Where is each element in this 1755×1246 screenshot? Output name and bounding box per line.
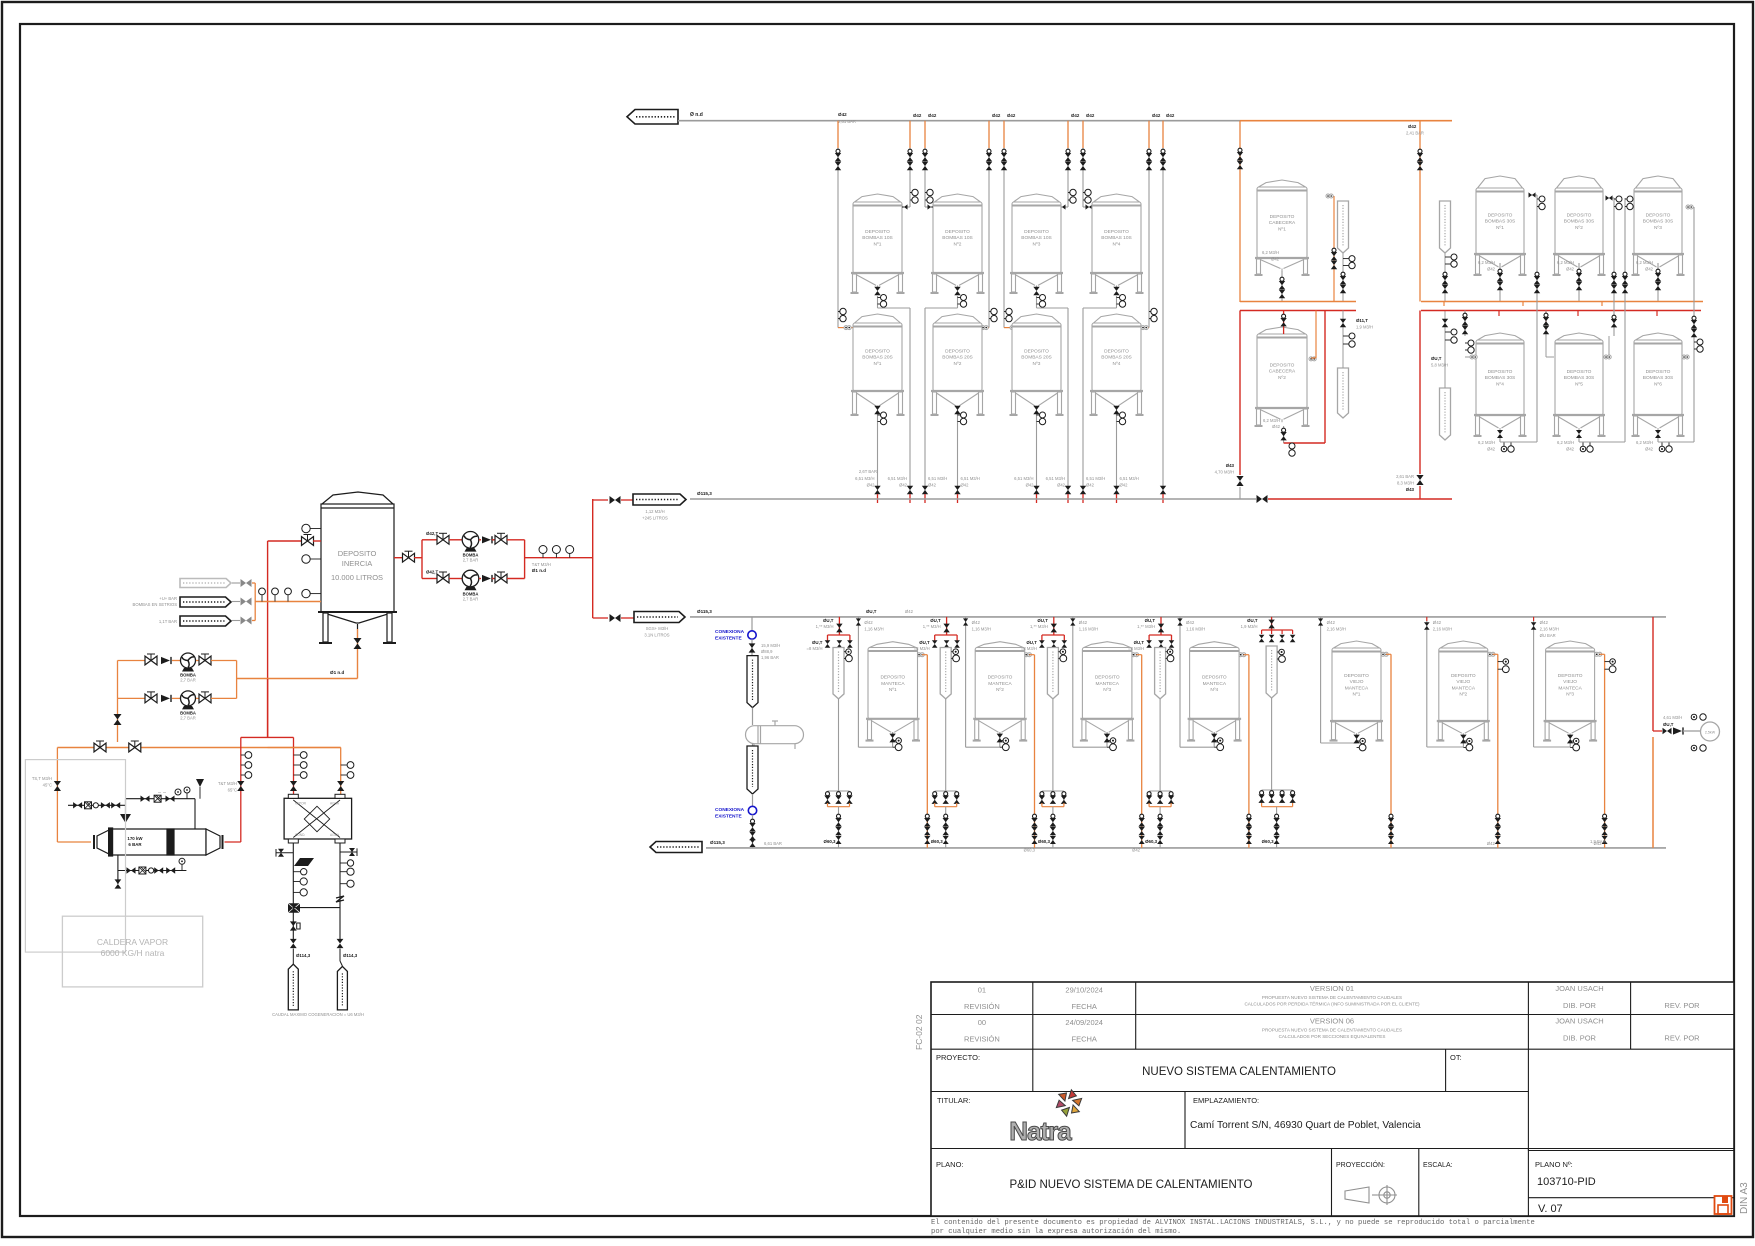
- svg-text:DEPOSITO: DEPOSITO: [1202, 675, 1227, 681]
- 30S riser3: [1579, 196, 1633, 442]
- svg-text:+245 LITROS: +245 LITROS: [642, 516, 668, 521]
- svg-text:Ø42: Ø42: [928, 483, 937, 488]
- svg-text:MANTECA: MANTECA: [1452, 685, 1476, 691]
- svg-text:=8 M3/H: =8 M3/H: [1021, 646, 1037, 651]
- svg-text:MANTECA: MANTECA: [1203, 681, 1227, 687]
- svg-text:Nº2: Nº2: [1459, 692, 1467, 698]
- banner cogeneracion L: [288, 949, 298, 1010]
- svg-text:Ø42: Ø42: [899, 483, 908, 488]
- svg-text:Natra: Natra: [1009, 1116, 1072, 1146]
- svg-text:4,70 M3/H: 4,70 M3/H: [1215, 470, 1234, 475]
- svg-text:Ø42: Ø42: [1071, 113, 1080, 118]
- svg-text:6,51 M3/H: 6,51 M3/H: [888, 476, 907, 481]
- plateHX left drain: [276, 843, 314, 958]
- svg-text:24/09/2024: 24/09/2024: [1065, 1018, 1103, 1027]
- svg-text:Ø43: Ø43: [1406, 487, 1415, 492]
- svg-text:FECHA: FECHA: [1071, 1002, 1096, 1011]
- svg-text:VIEJO: VIEJO: [1563, 679, 1577, 685]
- svg-text:Nº2: Nº2: [954, 361, 962, 367]
- svg-text:=8 M3/H: =8 M3/H: [1128, 646, 1144, 651]
- label 2,6T BAR: [859, 469, 877, 474]
- svg-text:T&T M3/H: T&T M3/H: [532, 562, 551, 567]
- pipe drop x989: [981, 113, 1001, 330]
- svg-text:PROPUESTA NUEVO SISTEMA DE CAL: PROPUESTA NUEVO SISTEMA DE CALENTAMIENTO…: [1262, 995, 1402, 1000]
- svg-text:BOMBAS 30S: BOMBAS 30S: [1485, 219, 1515, 225]
- conexiona existente 1: [715, 617, 780, 660]
- manteca tank3 outlet: [1104, 732, 1117, 751]
- pipe drop x1004: [1001, 113, 1019, 330]
- svg-text:T&T M3/H: T&T M3/H: [218, 781, 237, 786]
- cabecera1 right pipe: [1326, 194, 1337, 302]
- svg-text:SGS+ M3/H: SGS+ M3/H: [646, 626, 668, 631]
- svg-text:Nº3: Nº3: [1103, 687, 1111, 693]
- svg-text:BOMBAS 10S: BOMBAS 10S: [942, 235, 972, 241]
- svg-text:REVISIÓN: REVISIÓN: [964, 1035, 1000, 1044]
- title block: [931, 982, 1734, 1216]
- svg-text:Ø42: Ø42: [992, 113, 1001, 118]
- cabecera1 outlet: [1262, 250, 1285, 302]
- svg-text:ØU,T: ØU,T: [1026, 640, 1037, 645]
- svg-text:1,9 M3/H: 1,9 M3/H: [1356, 325, 1373, 330]
- svg-text:VIEJO: VIEJO: [1456, 679, 1470, 685]
- svg-text:Ø42: Ø42: [1152, 113, 1161, 118]
- tank DEPOSITO BOMBAS 20S Nº4: [1090, 314, 1144, 415]
- svg-text:2,7 BAR: 2,7 BAR: [180, 715, 196, 720]
- svg-text:Ø60,3: Ø60,3: [824, 839, 837, 844]
- lower pump manifold L: [117, 661, 119, 699]
- svg-text:Ø42: Ø42: [1645, 267, 1654, 272]
- svg-text:1,** M3/H: 1,** M3/H: [923, 624, 941, 629]
- svg-text:4,61 M3/H: 4,61 M3/H: [1663, 715, 1682, 720]
- orange header low: [57, 741, 340, 752]
- tank DEPOSITO MANTECA Nº3: [1080, 642, 1135, 741]
- svg-text:VERSION 01: VERSION 01: [1310, 984, 1354, 993]
- svg-text:DEPOSITO: DEPOSITO: [1488, 369, 1513, 375]
- svg-text:BOMBAS 30S: BOMBAS 30S: [1643, 219, 1673, 225]
- svg-text:1,16 M3/H: 1,16 M3/H: [972, 627, 991, 632]
- svg-text:Ø42: Ø42: [905, 609, 914, 614]
- svg-text:00: 00: [978, 1018, 986, 1027]
- svg-text:VAPOR: VAPOR: [295, 802, 307, 806]
- svg-text:ØU,T: ØU,T: [812, 640, 823, 645]
- svg-text:NUEVO SISTEMA CALENTAMIENTO: NUEVO SISTEMA CALENTAMIENTO: [1142, 1066, 1336, 1078]
- red vertical left: [267, 541, 269, 737]
- svg-text:COND.: COND.: [295, 833, 305, 837]
- svg-text:6,51 M3/H: 6,51 M3/H: [928, 476, 947, 481]
- svg-text:Ø60,3: Ø60,3: [931, 839, 944, 844]
- svg-text:6,51 M3/H: 6,51 M3/H: [1046, 476, 1065, 481]
- svg-text:DEPOSITO: DEPOSITO: [1646, 369, 1671, 375]
- svg-text:2,5kW: 2,5kW: [1705, 731, 1716, 735]
- svg-text:ØU,T: ØU,T: [1247, 618, 1258, 623]
- svg-text:Nº1: Nº1: [1496, 225, 1504, 231]
- disclaimer: [931, 1219, 1535, 1236]
- svg-text:8,3 M3/H: 8,3 M3/H: [1397, 481, 1414, 486]
- HX steam top line: [126, 779, 205, 829]
- svg-text:Nº1: Nº1: [1353, 692, 1361, 698]
- svg-text:MANTECA: MANTECA: [1558, 685, 1582, 691]
- 30S riser4: [1658, 205, 1703, 442]
- manteca right pump: [1653, 617, 1720, 848]
- conexiona existente 2: [715, 794, 782, 848]
- svg-text:Ø42: Ø42: [1408, 124, 1417, 129]
- svg-text:FECHA: FECHA: [1071, 1035, 1096, 1044]
- inercia bottom valve: [354, 629, 362, 679]
- svg-text:Ø115,3: Ø115,3: [697, 609, 712, 614]
- svg-text:Ø42: Ø42: [1272, 424, 1281, 429]
- svg-text:BOMBAS 20S: BOMBAS 20S: [1101, 355, 1131, 361]
- svg-text:Ø60,3: Ø60,3: [1024, 848, 1036, 853]
- top header gray: [678, 120, 1240, 122]
- svg-text:Ø42: Ø42: [913, 113, 922, 118]
- viejo manteca tank1 outlet: [1353, 735, 1366, 751]
- svg-text:2,7 BAR: 2,7 BAR: [463, 558, 479, 563]
- inercia inlet valve: [268, 535, 321, 546]
- lower pump branch2: [118, 691, 237, 721]
- tank DEPOSITO BOMBAS 10S Nº2: [931, 194, 985, 293]
- mid header gray: [690, 491, 1256, 499]
- svg-text:Nº3: Nº3: [1654, 225, 1662, 231]
- tank DEPOSITO BOMBAS 10S Nº1: [851, 194, 905, 293]
- svg-text:por cualquier medio sin la exp: por cualquier medio sin la expresa autor…: [931, 1228, 1181, 1236]
- svg-text:DEPOSITO: DEPOSITO: [988, 675, 1013, 681]
- svg-text:DEPOSITO: DEPOSITO: [1451, 673, 1476, 679]
- lower pump manifold R: [237, 661, 358, 699]
- svg-text:JOAN USACH: JOAN USACH: [1555, 1017, 1603, 1026]
- svg-text:5,8 M3/H: 5,8 M3/H: [1431, 363, 1448, 368]
- red vertical mid-junction: [267, 736, 269, 738]
- tank DEPOSITO MANTECA Nº2: [973, 642, 1027, 741]
- svg-text:Ø42: Ø42: [1057, 483, 1066, 488]
- svg-text:BOMBAS 30S: BOMBAS 30S: [1485, 375, 1515, 381]
- lower pump branch1: [118, 653, 237, 683]
- svg-text:TS,T M3/H: TS,T M3/H: [32, 776, 52, 781]
- red H manifold: [241, 679, 294, 737]
- svg-text:01: 01: [978, 986, 986, 995]
- svg-text:DEPOSITO: DEPOSITO: [1646, 213, 1671, 219]
- svg-text:BOMBAS 20S: BOMBAS 20S: [862, 355, 892, 361]
- svg-text:Ø42: Ø42: [1086, 483, 1095, 488]
- svg-text:Ø60,3: Ø60,3: [1038, 839, 1051, 844]
- cabecera2 top feed: [1280, 311, 1316, 361]
- banner DEVOLUCION mid: [593, 494, 686, 521]
- svg-text:AGUA: AGUA: [330, 802, 340, 806]
- svg-text:Ø115,3: Ø115,3: [710, 840, 725, 845]
- svg-text:Ø88,9: Ø88,9: [761, 649, 773, 654]
- svg-text:Nº2: Nº2: [954, 241, 962, 247]
- svg-text:DEPOSITO: DEPOSITO: [1024, 229, 1049, 235]
- svg-text:Ø60,3: Ø60,3: [1262, 839, 1275, 844]
- svg-text:Ø42: Ø42: [838, 112, 847, 117]
- svg-text:CALCULADOS POR PERDIDA TÉRMICA: CALCULADOS POR PERDIDA TÉRMICA (INFO SUM…: [1244, 1001, 1420, 1007]
- banners manifold left: [133, 579, 256, 627]
- heat exchanger plates: [284, 794, 352, 843]
- svg-text:MANTECA: MANTECA: [1345, 685, 1369, 691]
- svg-text:2,7 BAR: 2,7 BAR: [463, 596, 479, 601]
- cabecera2 outlet loop: [1263, 311, 1325, 457]
- manteca tank1 outlet: [889, 732, 902, 751]
- labels col2: [928, 476, 947, 488]
- svg-text:6,51 M3/H: 6,51 M3/H: [1120, 476, 1139, 481]
- row1 tank4 bottom outlet: [1083, 287, 1126, 308]
- row1 tank1 bottom outlet: [874, 287, 910, 308]
- svg-text:Ø42: Ø42: [928, 113, 937, 118]
- 30S riser1: [1500, 192, 1545, 442]
- svg-text:2,7 BAR: 2,7 BAR: [180, 678, 196, 683]
- svg-text:V. 07: V. 07: [1538, 1203, 1563, 1215]
- svg-text:2,16 M3/H: 2,16 M3/H: [1433, 627, 1452, 632]
- viejo manteca module pipes 1: [1241, 617, 1395, 848]
- svg-text:CABECERA: CABECERA: [1269, 220, 1296, 226]
- svg-text:ØU,T: ØU,T: [1431, 356, 1442, 361]
- svg-text:BOMBAS 10S: BOMBAS 10S: [1101, 235, 1131, 241]
- cabecera orange drop L: [1237, 121, 1243, 302]
- svg-text:1,9 M3/H: 1,9 M3/H: [1241, 624, 1258, 629]
- svg-text:Ø1 n.d: Ø1 n.d: [532, 568, 546, 573]
- svg-text:15,9 M3/H: 15,9 M3/H: [761, 643, 780, 648]
- svg-text:29/10/2024: 29/10/2024: [1065, 986, 1103, 995]
- svg-text:ØU,T: ØU,T: [1145, 618, 1156, 623]
- svg-text:10.000 LITROS: 10.000 LITROS: [331, 573, 383, 582]
- svg-text:PROYECTO:: PROYECTO:: [936, 1053, 980, 1062]
- manteca module pipes 3: [1021, 617, 1145, 848]
- svg-text:Camí Torrent S/N, 46930 Quart: Camí Torrent S/N, 46930 Quart de Poblet,…: [1190, 1120, 1421, 1131]
- svg-text:CABECERA: CABECERA: [1269, 369, 1296, 375]
- svg-text:DEPOSITO: DEPOSITO: [1095, 675, 1120, 681]
- svg-text:6,2 M3/H: 6,2 M3/H: [1262, 250, 1279, 255]
- mid header valve: [1257, 495, 1268, 503]
- svg-text:6,51 M3/H: 6,51 M3/H: [1014, 476, 1033, 481]
- tank DEPOSITO BOMBAS 20S Nº1: [851, 314, 905, 415]
- svg-text:2,16 M3/H: 2,16 M3/H: [1540, 627, 1559, 632]
- cabecera orange drop R: [1406, 121, 1424, 302]
- tank DEPOSITO BOMBAS 30S Nº2: [1553, 176, 1606, 275]
- row1 tank2 bottom outlet: [925, 287, 967, 308]
- svg-text:... ...: ... ...: [158, 789, 167, 794]
- tank DEPOSITO VIEJO MANTECA Nº1: [1330, 641, 1384, 741]
- svg-text:1,16 M3/H: 1,16 M3/H: [1186, 627, 1205, 632]
- svg-text:DEPOSITO: DEPOSITO: [1104, 229, 1129, 235]
- tank DEPOSITO CABECERA Nº2: [1255, 327, 1310, 426]
- svg-text:DEPOSITO: DEPOSITO: [338, 549, 377, 558]
- tank DEPOSITO BOMBAS 10S Nº4: [1090, 194, 1144, 293]
- tank DEPOSITO MANTECA Nº1: [866, 642, 921, 741]
- inercia left instruments: [302, 524, 321, 598]
- svg-text:1,16 M3/H: 1,16 M3/H: [1079, 627, 1098, 632]
- banner tag grp2b: [1431, 311, 1457, 441]
- svg-text:6,2 M3/H: 6,2 M3/H: [1263, 418, 1280, 423]
- svg-text:ØU,T: ØU,T: [930, 618, 941, 623]
- svg-text:1,9 BAR: 1,9 BAR: [1590, 839, 1606, 844]
- red vertical group2: [1396, 311, 1424, 500]
- svg-text:DEPOSITO: DEPOSITO: [1558, 673, 1583, 679]
- manteca module pipes 1: [807, 617, 931, 848]
- svg-text:PLANO Nº:: PLANO Nº:: [1535, 1160, 1573, 1169]
- pipe drop x925: [922, 113, 937, 503]
- svg-text:ØU,T: ØU,T: [1134, 640, 1145, 645]
- banner salida mid: [593, 612, 685, 638]
- orange into tank: [255, 588, 321, 602]
- svg-text:DEPOSITO: DEPOSITO: [865, 229, 890, 235]
- svg-text:Ø42: Ø42: [961, 483, 970, 488]
- svg-text:Nº4: Nº4: [1496, 381, 1504, 387]
- svg-text:Ø42: Ø42: [1166, 113, 1175, 118]
- svg-text:Ø42: Ø42: [1271, 257, 1280, 262]
- svg-text:Nº5: Nº5: [1575, 381, 1583, 387]
- svg-text:+U+ BAR: +U+ BAR: [159, 596, 177, 601]
- svg-text:Ø42: Ø42: [1433, 620, 1442, 625]
- banner tag cab1: [1338, 201, 1356, 301]
- 30S row2 feeds: [1462, 311, 1689, 360]
- FC-02 02 vertical: [914, 1014, 924, 1050]
- tank DEPOSITO BOMBAS 10S Nº3: [1010, 194, 1064, 293]
- svg-text:1,12 M3/H: 1,12 M3/H: [645, 509, 664, 514]
- svg-text:6,51 M3/H: 6,51 M3/H: [855, 476, 874, 481]
- orange left drop: [32, 748, 91, 843]
- banner cogeneracion R: [337, 949, 347, 1010]
- svg-text:DEPOSITO: DEPOSITO: [1488, 213, 1513, 219]
- red vertical cab L: [1215, 311, 1244, 500]
- svg-text:Nº4: Nº4: [1113, 361, 1121, 367]
- svg-text:DEPOSITO: DEPOSITO: [1270, 363, 1295, 369]
- svg-text:6,61 BAR: 6,61 BAR: [764, 841, 782, 846]
- svg-text:Ø114,3: Ø114,3: [343, 953, 358, 958]
- svg-text:Ø114,3: Ø114,3: [296, 953, 311, 958]
- svg-text:DIN A3: DIN A3: [1739, 1182, 1750, 1214]
- svg-text:6000 KG/H natra: 6000 KG/H natra: [101, 948, 165, 958]
- svg-text:1,** M3/H: 1,** M3/H: [1030, 624, 1048, 629]
- svg-text:Ø42: Ø42: [1007, 113, 1016, 118]
- svg-text:DEPOSITO: DEPOSITO: [1024, 349, 1049, 355]
- tank DEPOSITO CABECERA Nº1: [1255, 180, 1310, 275]
- svg-text:45°C: 45°C: [43, 783, 52, 788]
- svg-text:6,2 M3/H: 6,2 M3/H: [1557, 260, 1574, 265]
- svg-text:P&ID NUEVO SISTEMA DE CALENTAM: P&ID NUEVO SISTEMA DE CALENTAMIENTO: [1009, 1179, 1252, 1191]
- pipe drop x1068: [1059, 113, 1080, 503]
- svg-text:DEPOSITO: DEPOSITO: [1104, 349, 1129, 355]
- banner tag grp2a: [1440, 201, 1458, 301]
- viejo manteca tank3 outlet: [1567, 735, 1580, 751]
- svg-text:JOAN USACH: JOAN USACH: [1555, 984, 1603, 993]
- pump upper branch: [422, 531, 525, 563]
- svg-text:Nº3: Nº3: [1566, 692, 1574, 698]
- svg-text:Ø42: Ø42: [867, 483, 876, 488]
- svg-text:Ø42: Ø42: [1566, 447, 1575, 452]
- svg-text:Ø42: Ø42: [1026, 483, 1035, 488]
- svg-text:6,2 M3/H: 6,2 M3/H: [1636, 260, 1653, 265]
- svg-text:BOMBAS 20S: BOMBAS 20S: [1021, 355, 1051, 361]
- svg-text:2,16 M3/H: 2,16 M3/H: [1327, 627, 1346, 632]
- svg-text:DEPOSITO: DEPOSITO: [1567, 213, 1592, 219]
- svg-text:Ø42: Ø42: [1120, 483, 1129, 488]
- svg-text:Nº2: Nº2: [1278, 375, 1286, 381]
- 30S feed 1546: [1543, 311, 1554, 358]
- svg-text:DEPOSITO: DEPOSITO: [865, 349, 890, 355]
- tank DEPOSITO MANTECA Nº4: [1187, 642, 1242, 741]
- svg-text:BOMBAS 10S: BOMBAS 10S: [1021, 235, 1051, 241]
- svg-text:PROPUESTA NUEVO SISTEMA DE CAL: PROPUESTA NUEVO SISTEMA DE CALENTAMIENTO…: [1262, 1028, 1402, 1033]
- plateHX right drain: [294, 843, 358, 958]
- row1 tank3 bottom outlet: [1033, 287, 1068, 308]
- label top header: [838, 112, 856, 124]
- svg-text:DIB. POR: DIB. POR: [1563, 1034, 1597, 1043]
- tank DEPOSITO BOMBAS 30S Nº5: [1553, 333, 1606, 436]
- red drop to plateHX: [290, 737, 307, 798]
- mid header red: [1268, 498, 1452, 500]
- svg-text:65°C: 65°C: [228, 788, 237, 793]
- svg-text:Ø42,T: Ø42,T: [426, 570, 439, 575]
- svg-text:6,51 M3/H: 6,51 M3/H: [961, 476, 980, 481]
- svg-text:Ø1 n.d: Ø1 n.d: [330, 670, 344, 675]
- svg-text:Ø42: Ø42: [1645, 447, 1654, 452]
- svg-text:PROYECCIÓN:: PROYECCIÓN:: [1336, 1160, 1385, 1169]
- svg-text:6,2 M3/H: 6,2 M3/H: [1636, 440, 1653, 445]
- svg-text:REV. POR: REV. POR: [1664, 1001, 1700, 1010]
- svg-text:6 BAR: 6 BAR: [128, 842, 142, 847]
- manteca module pipes 4: [1128, 617, 1252, 848]
- svg-text:Ø42: Ø42: [864, 620, 873, 625]
- svg-text:CALDERA VAPOR: CALDERA VAPOR: [97, 937, 168, 947]
- row2 tank2 bottom outlet: [954, 406, 980, 503]
- 30S red drops: [1444, 302, 1657, 317]
- 30S orange low header: [1421, 301, 1703, 303]
- svg-text:El contenido del presente docu: El contenido del presente documento es p…: [931, 1219, 1535, 1227]
- svg-text:Ø42: Ø42: [1327, 620, 1336, 625]
- 30S row1 tank2 outlet: [1557, 260, 1582, 302]
- svg-text:Ø42: Ø42: [1086, 113, 1095, 118]
- svg-text:REV. POR: REV. POR: [1664, 1034, 1700, 1043]
- orange drop to plateHX: [268, 748, 354, 799]
- tank DEPOSITO BOMBAS 20S Nº2: [931, 314, 985, 415]
- svg-text:Ø11,T: Ø11,T: [1356, 318, 1368, 323]
- svg-text:Nº4: Nº4: [1113, 241, 1121, 247]
- svg-text:Ø42: Ø42: [1132, 848, 1141, 853]
- svg-text:Nº4: Nº4: [1210, 687, 1218, 693]
- tank DEPOSITO INERCIA: [318, 492, 397, 643]
- svg-text:Ø60,3: Ø60,3: [1145, 839, 1158, 844]
- tank DEPOSITO VIEJO MANTECA Nº3: [1543, 641, 1597, 741]
- banner condensados bottom: [650, 842, 702, 853]
- HX condensate mid line: [68, 799, 131, 823]
- labels col3: [1046, 476, 1066, 488]
- svg-text:2,61 BAR: 2,61 BAR: [1396, 474, 1414, 479]
- svg-text:DEPOSITO: DEPOSITO: [1567, 369, 1592, 375]
- vessel intercambiador: [746, 708, 804, 749]
- labels col4: [1086, 476, 1105, 488]
- svg-text:Ø42: Ø42: [1079, 620, 1088, 625]
- row2 tank4 bottom outlet: [1113, 406, 1139, 503]
- svg-text:ESCALA:: ESCALA:: [1423, 1162, 1453, 1169]
- pipe drop x1149: [1141, 113, 1161, 330]
- svg-text:1,1T BAR: 1,1T BAR: [159, 619, 177, 624]
- viejo manteca tank2 outlet: [1460, 735, 1473, 751]
- banner tag intercambiador A: [747, 656, 758, 708]
- tank DEPOSITO VIEJO MANTECA Nº2: [1436, 641, 1490, 741]
- svg-text:CONEXIONA: CONEXIONA: [715, 807, 745, 813]
- HX bottom drain: [115, 855, 187, 889]
- svg-text:ØU,T: ØU,T: [866, 609, 877, 614]
- svg-text:Nº2: Nº2: [1575, 225, 1583, 231]
- svg-text:ØU,T: ØU,T: [1663, 722, 1674, 727]
- manteca module pipes 2: [914, 617, 1038, 848]
- svg-text:Ø n.d: Ø n.d: [690, 112, 703, 118]
- svg-text:EMPLAZAMIENTO:: EMPLAZAMIENTO:: [1193, 1096, 1259, 1105]
- svg-text:6,2 M3/H: 6,2 M3/H: [1478, 260, 1495, 265]
- viejo manteca module pipes 3: [1531, 617, 1616, 848]
- svg-text:103710-PID: 103710-PID: [1537, 1176, 1596, 1188]
- svg-text:2,6T BAR: 2,6T BAR: [859, 469, 877, 474]
- svg-text:REVISIÓN: REVISIÓN: [964, 1002, 1000, 1011]
